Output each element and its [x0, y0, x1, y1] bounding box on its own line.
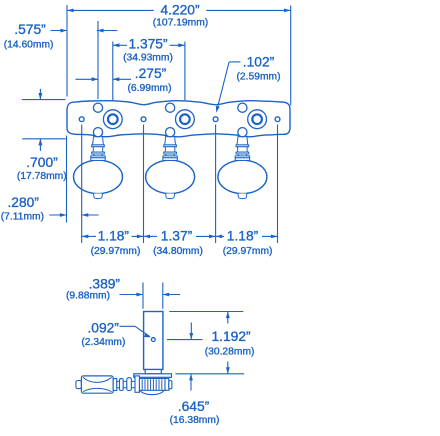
tuner button 2 (front view) [146, 156, 195, 199]
side view post base step [145, 370, 161, 374]
svg-text:(7.11mm): (7.11mm) [1, 211, 44, 222]
svg-text:.275”: .275” [135, 66, 167, 81]
dimension 1.192" overall post height [167, 312, 254, 374]
svg-text:(107.19mm): (107.19mm) [153, 17, 209, 28]
svg-text:1.18”: 1.18” [98, 229, 130, 244]
svg-text:.092”: .092” [87, 320, 119, 335]
dimension .280" edge to hole [1, 136, 99, 223]
string post hole 2 (inner) [180, 114, 190, 124]
string post ferrule 3 (outer) [248, 110, 267, 129]
mounting screw hole top 2 [166, 103, 175, 112]
string post hole 3 (inner) [252, 114, 262, 124]
svg-text:(29.97mm): (29.97mm) [223, 246, 273, 257]
svg-text:1.192”: 1.192” [212, 329, 252, 344]
mounting screw hole top 1 [93, 103, 102, 112]
small plate hole 1 [79, 117, 84, 122]
svg-text:.645”: .645” [178, 399, 210, 414]
tuner button 3 (front view) [218, 156, 267, 199]
side view shaft ribs [113, 376, 139, 392]
svg-text:(16.38mm): (16.38mm) [170, 415, 220, 426]
mounting screw hole bottom 2 [166, 128, 175, 137]
small plate hole 2 [141, 117, 146, 122]
svg-text:.575”: .575” [14, 22, 46, 37]
tuner button 1 (front view) [74, 156, 123, 199]
svg-text:.280”: .280” [7, 195, 39, 210]
svg-text:(29.97mm): (29.97mm) [91, 246, 141, 257]
svg-text:1.18”: 1.18” [227, 229, 259, 244]
string post ferrule 1 (outer) [103, 110, 122, 129]
dimension .575" edge to screw center [4, 21, 118, 99]
leader .092" string hole diameter [81, 320, 151, 348]
svg-text:.700”: .700” [26, 155, 58, 170]
tuner worm shaft 2 (front view) [164, 137, 177, 156]
svg-text:(14.60mm): (14.60mm) [4, 40, 54, 51]
dimension .275" screw to post offset [76, 66, 172, 94]
string post hole 1 (inner) [108, 114, 118, 124]
side view gear housing [137, 377, 172, 394]
mounting screw hole top 3 [238, 103, 247, 112]
dimension 1.37" hole spacing middle [144, 229, 216, 257]
svg-text:(30.28mm): (30.28mm) [205, 347, 255, 358]
side view button grip [76, 376, 113, 393]
svg-text:(9.88mm): (9.88mm) [66, 291, 110, 302]
svg-text:(2.59mm): (2.59mm) [236, 72, 280, 83]
extension lines for hole spacing dims [82, 125, 278, 244]
small plate hole 3 [213, 117, 218, 122]
tuner worm shaft 3 (front view) [236, 137, 249, 156]
svg-text:(34.93mm): (34.93mm) [123, 52, 173, 63]
svg-text:(2.34mm): (2.34mm) [81, 337, 125, 348]
dimension 1.18" hole spacing left [82, 229, 144, 257]
svg-text:(17.78mm): (17.78mm) [17, 171, 67, 182]
leader .102" small hole diameter [216, 55, 281, 113]
svg-text:1.375”: 1.375” [128, 37, 168, 52]
svg-text:4.220”: 4.220” [160, 3, 200, 18]
dimension .700" plate width [17, 89, 67, 182]
dimension 4.220" overall length [67, 3, 291, 106]
tuner plate outline (top view) [67, 101, 290, 137]
dimension 1.18" hole spacing right [216, 229, 278, 257]
string post ferrule 2 (outer) [176, 110, 195, 129]
side view string hole [151, 338, 155, 342]
side view mounting washer [134, 374, 172, 378]
mounting screw hole bottom 3 [238, 128, 247, 137]
side view post (barrel) [144, 312, 163, 370]
dimension .645" hole to mount face [170, 323, 245, 427]
tuner worm shaft 1 (front view) [92, 137, 105, 156]
svg-text:(6.99mm): (6.99mm) [127, 83, 171, 94]
small plate hole 4 [275, 117, 280, 122]
dimension .389" post diameter [66, 276, 180, 308]
svg-text:(34.80mm): (34.80mm) [153, 246, 203, 257]
svg-text:.389”: .389” [89, 276, 121, 291]
svg-text:1.37”: 1.37” [161, 229, 193, 244]
svg-text:.102”: .102” [243, 55, 275, 70]
dimension 1.375" post spacing [113, 37, 185, 101]
mounting screw hole bottom 1 [93, 128, 102, 137]
